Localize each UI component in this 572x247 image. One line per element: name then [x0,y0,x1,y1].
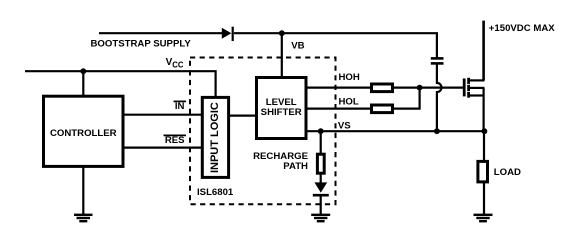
wire diode cathode to top-right corner [234,33,437,58]
wire bootstrap supply horizontal [99,32,223,34]
resistor R3 recharge [317,154,324,173]
node recharge tap [318,128,324,134]
wire HOL up to gate junction [393,88,420,109]
wire recharge tap down [320,131,322,154]
wire HOH to gate [393,86,464,88]
wire input logic to level shifter [229,114,256,116]
svg-text:SHIFTER: SHIFTER [261,107,302,118]
svg-text:VB: VB [291,40,304,51]
svg-text:CONTROLLER: CONTROLLER [50,128,117,139]
wire IN [124,114,202,116]
svg-text:LOAD: LOAD [494,167,521,178]
level shifter U1b box [257,78,307,139]
node source to VS [482,128,488,134]
wire RES [124,147,202,149]
node gate junction [417,85,423,91]
svg-text:ISL6801: ISL6801 [197,187,234,198]
svg-text:PATH: PATH [283,161,308,172]
label IN with overline [174,101,187,112]
diode D1 bootstrap [222,27,233,41]
input logic U1a box [202,97,228,177]
transistor Q1 MOSFET [464,78,484,98]
svg-text:+150VDC MAX: +150VDC MAX [489,23,555,34]
wire drain to +150VDC [482,21,485,81]
wire VCC drop to controller [82,71,84,96]
wire controller to ground [82,166,84,214]
svg-text:INPUT LOGIC: INPUT LOGIC [209,102,221,173]
svg-text:IN: IN [175,101,185,112]
capacitor C1 bootstrap [431,58,444,63]
wire source down to VS [483,88,485,131]
wire VCC horizontal [25,71,216,97]
wire HOL from level shifter [306,107,371,109]
wire diode to ground [320,195,322,214]
node bootstrap cap to VS [434,128,440,134]
IC boundary ISL6801 dashed box [190,58,336,205]
diode D2 recharge [313,182,329,195]
controller box [44,96,124,166]
label RECHARGE PATH [253,151,309,172]
wire VB vertical to level shifter [281,33,283,77]
label RES with overline [164,135,187,146]
wire load to ground [483,182,485,214]
wire HOH from level shifter [306,86,371,88]
svg-text:BOOTSTRAP SUPPLY: BOOTSTRAP SUPPLY [91,38,192,49]
resistor R1 gate HOH [372,84,393,92]
node VCC junction [80,68,86,74]
svg-text:RES: RES [165,135,185,146]
wire VS to load [483,131,485,160]
wire cap to VS with hop over gate wire [437,63,442,131]
node VB junction [279,30,285,36]
ground recharge [311,215,330,221]
svg-text:VS: VS [338,121,351,132]
svg-text:HOH: HOH [339,72,360,83]
wire VS horizontal [306,130,484,132]
svg-text:HOL: HOL [339,97,359,108]
wire resistor to diode [320,173,322,183]
ground load [474,215,493,221]
ground controller [74,215,93,221]
resistor R4 load [478,161,488,182]
resistor R2 gate HOL [372,105,393,113]
label LEVEL SHIFTER [261,97,302,118]
